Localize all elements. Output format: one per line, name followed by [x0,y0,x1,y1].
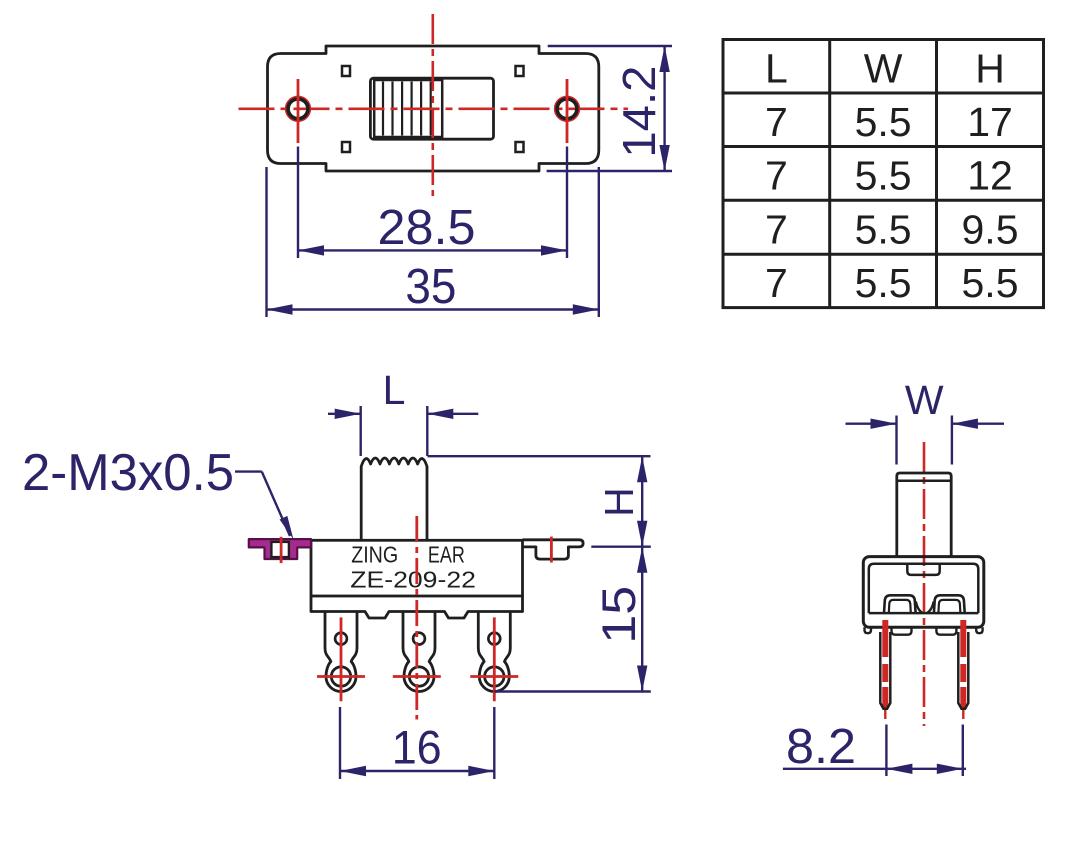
top view peg square top-right [516,66,524,76]
end view body outline [863,557,984,628]
end view knob [897,473,951,557]
svg-text:12: 12 [967,152,1013,198]
svg-text:28.5: 28.5 [378,201,476,255]
end view center valley [916,602,923,613]
svg-text:7: 7 [765,206,788,252]
terminal 3 [478,612,510,692]
end view right pin [960,620,966,707]
top view slot opening [370,78,493,139]
end view center line (red dash-dot) [923,442,926,726]
vertical centerline (red dash-dot) [431,14,434,196]
dim 16 extension lines [340,707,494,779]
svg-text:ZING: ZING [351,542,398,568]
end view left bottom tab [892,627,912,634]
dim 28.5 extension lines [298,147,567,259]
dim 15 bottom extension line [494,690,651,692]
svg-text:16: 16 [392,720,442,773]
dim H line with arrows [637,456,647,547]
svg-text:W: W [905,377,944,423]
end view right foot [976,627,982,633]
svg-text:15: 15 [592,586,645,644]
terminal 2 [403,612,435,692]
end view left foot [865,627,872,633]
front view knob with serrated top [361,458,427,540]
top view slider knob (knurled) [374,80,442,137]
svg-text:L: L [765,45,788,91]
end view left contact bump [884,595,916,613]
dim 16 line with arrows [340,766,494,776]
left hole vertical centerline [297,79,300,143]
svg-text:14.2: 14.2 [613,66,665,158]
left mounting flange (highlighted) [249,539,311,559]
right mounting flange [523,540,584,559]
svg-text:H: H [596,487,642,517]
table text [765,45,1019,306]
svg-text:5.5: 5.5 [855,206,912,252]
svg-text:5.5: 5.5 [855,260,912,306]
dim 15 line with arrows [637,547,647,692]
left flange centerline [280,537,283,563]
right hole vertical centerline [566,79,569,143]
dim 28.5 line with arrows [298,245,567,255]
dim W line with arrows [846,419,1005,429]
dim 35 line with arrows [267,304,599,314]
dim 8.2 line with arrows [783,764,966,774]
svg-text:17: 17 [967,99,1013,145]
svg-text:7: 7 [765,99,788,145]
svg-text:2-M3x0.5: 2-M3x0.5 [22,444,234,502]
svg-text:9.5: 9.5 [962,206,1019,252]
svg-text:W: W [864,45,903,91]
end view right contact bump [934,595,965,613]
svg-text:5.5: 5.5 [855,152,912,198]
dim L line with arrows [328,409,478,419]
terminal 1 [325,612,357,692]
end view inner shelf line [869,612,979,615]
end view left pin [882,620,888,707]
svg-text:35: 35 [405,260,456,314]
dim W extension lines [897,416,952,465]
svg-text:ZE-209-22: ZE-209-22 [350,567,476,593]
dim L extension lines [361,406,428,456]
front view bottom lip profile [311,596,523,618]
terminal 2 centerlines [393,516,441,720]
top view peg square bottom-right [516,142,524,152]
top view peg square bottom-left [342,142,350,152]
end view top notch [907,565,939,575]
leader line 2-M3x0.5 [235,472,294,540]
svg-text:5.5: 5.5 [855,99,912,145]
dim 8.2 extension lines [886,725,962,777]
top view peg square top-left [342,66,350,76]
end view right bottom tab [936,627,956,634]
svg-text:H: H [975,45,1005,91]
terminal 1 centerlines [317,617,365,701]
left mounting hole [286,97,310,121]
dim 35 extension lines [267,167,599,317]
svg-text:5.5: 5.5 [962,260,1019,306]
dim H top extension line [428,455,651,457]
top view mounting plate outline [268,46,599,171]
horizontal centerline (red dash-dot) [239,108,629,111]
svg-text:L: L [383,367,406,413]
svg-text:7: 7 [765,260,788,306]
right flange centerline [550,537,553,563]
table grid [723,40,1044,308]
svg-text:7: 7 [765,152,788,198]
right mounting hole [555,97,579,121]
dim 14.2 extension lines [547,46,672,171]
terminal 3 centerlines [470,617,518,701]
dim 14.2 line with arrows [659,46,669,171]
svg-text:8.2: 8.2 [786,720,856,774]
end view body inner wall [869,564,979,613]
front view switch body [311,540,523,596]
dim H/15 junction extension line [591,546,651,548]
svg-text:EAR: EAR [428,542,465,568]
